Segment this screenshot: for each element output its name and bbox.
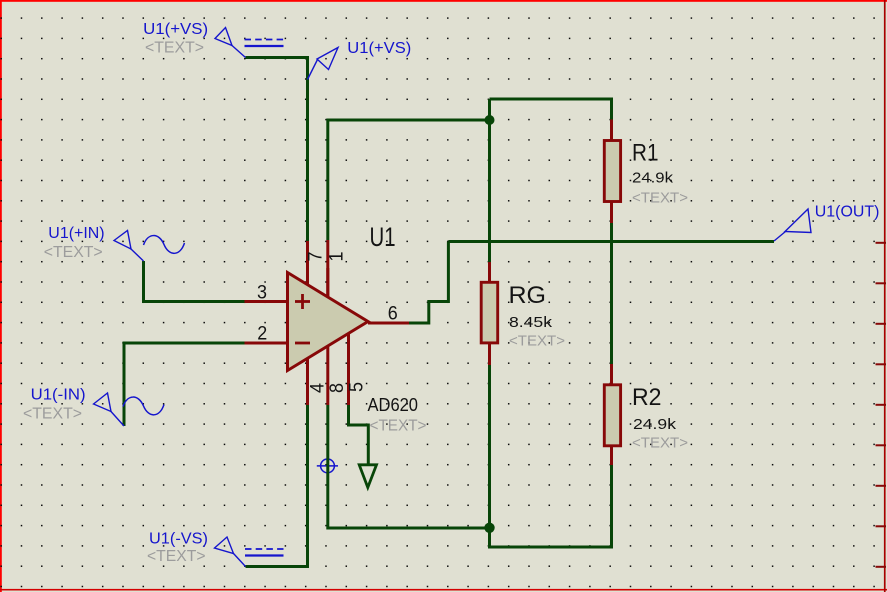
svg-text:3: 3: [257, 283, 267, 304]
svg-text:24.9k: 24.9k: [633, 416, 677, 433]
svg-text:U1(OUT): U1(OUT): [815, 204, 880, 221]
svg-text:2: 2: [257, 324, 267, 345]
svg-text:U1(-IN): U1(-IN): [31, 387, 86, 404]
svg-text:U1(+VS): U1(+VS): [143, 21, 208, 38]
svg-text:<TEXT>: <TEXT>: [632, 190, 688, 207]
svg-text:<TEXT>: <TEXT>: [145, 39, 204, 56]
svg-text:R2: R2: [632, 384, 662, 411]
svg-text:AD620: AD620: [368, 395, 419, 415]
svg-text:<TEXT>: <TEXT>: [44, 244, 103, 261]
svg-text:4: 4: [308, 383, 329, 393]
svg-text:8.45k: 8.45k: [509, 314, 553, 331]
svg-text:6: 6: [388, 304, 398, 325]
svg-text:U1: U1: [370, 222, 396, 252]
svg-text:<TEXT>: <TEXT>: [23, 406, 82, 423]
svg-text:<TEXT>: <TEXT>: [632, 435, 688, 452]
svg-text:<TEXT>: <TEXT>: [509, 333, 565, 350]
svg-text:24.9k: 24.9k: [632, 170, 674, 187]
svg-text:5: 5: [347, 382, 368, 392]
svg-text:U1(+VS): U1(+VS): [347, 40, 411, 57]
svg-text:<TEXT>: <TEXT>: [370, 418, 427, 435]
svg-text:U1(+IN): U1(+IN): [48, 225, 104, 242]
svg-text:7: 7: [306, 252, 327, 262]
svg-text:U1(-VS): U1(-VS): [149, 531, 208, 548]
svg-text:RG: RG: [509, 282, 547, 309]
svg-text:<TEXT>: <TEXT>: [147, 548, 206, 565]
svg-text:1: 1: [327, 252, 348, 262]
svg-text:8: 8: [327, 383, 348, 393]
svg-text:R1: R1: [632, 140, 659, 167]
